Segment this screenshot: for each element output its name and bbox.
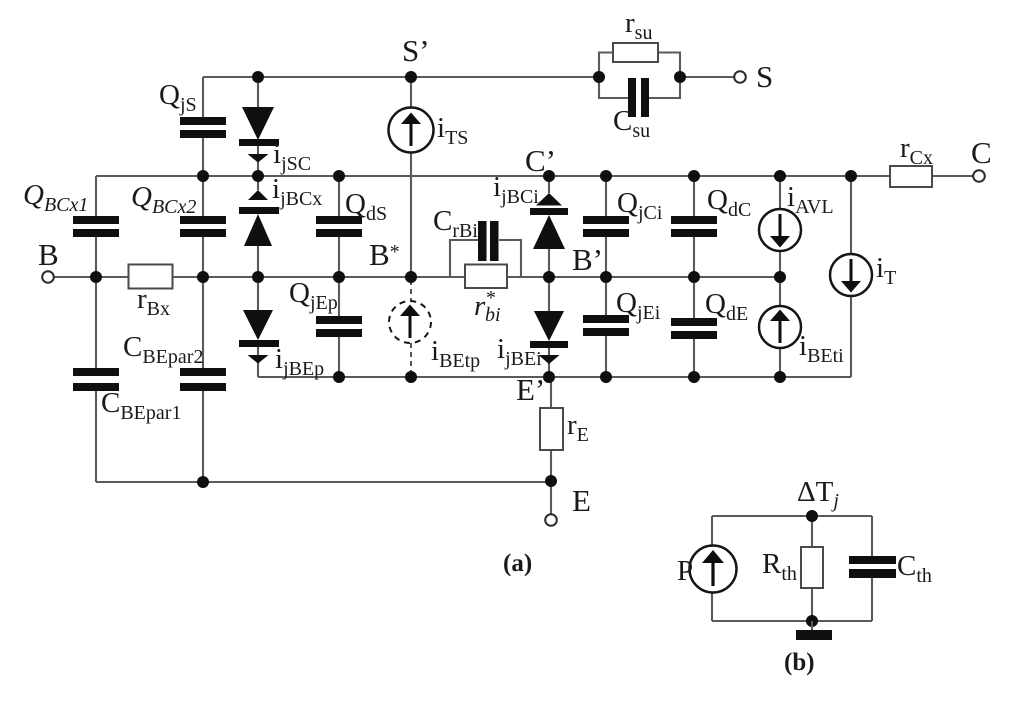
capacitor QdS [316,216,362,237]
current source i_BEtp (dashed) [389,301,431,343]
junction B'-row QjEi [600,271,612,283]
junction C'-row x203 [197,170,209,182]
wire i_TS column [410,77,412,277]
current arrow i_jBCx [248,190,268,200]
diode i_jBCi [530,208,568,249]
capacitor Cth [849,556,896,578]
junction C'-row QdS [333,170,345,182]
current source i_T [830,254,872,296]
svg-text:(a): (a) [503,550,532,577]
wire diode column x258 [257,77,259,377]
ground [796,621,832,640]
junction S-row iTS column [405,71,417,83]
wire r_bi to B' row end [507,276,780,278]
current source i_AVL [759,209,801,251]
wire thermal network loop [712,516,872,621]
wire C' row [96,175,890,177]
terminal C [973,170,985,182]
current source i_BEti [759,306,801,348]
resistor rBx [129,265,173,289]
current source i_TS [389,108,434,153]
wire S' top row [203,76,599,78]
diode i_jSC [239,107,279,146]
current arrow i_jSC [248,154,269,163]
current arrow i_jBCi [536,193,562,206]
wire dashed i_BEtp column [410,280,412,374]
terminal B [42,271,54,283]
capacitor CBEpar2 [180,368,226,391]
svg-text:S: S [756,59,773,94]
wire column x606 [605,176,607,377]
wire C_rBi bracket [450,240,521,277]
current source P [690,546,737,593]
svg-text:E’: E’ [516,372,545,407]
svg-text:E: E [572,483,591,518]
capacitor QjS [180,117,226,138]
resistor rCx [890,166,932,187]
svg-text:P: P [677,555,693,587]
capacitor QdC [671,216,717,237]
node thermal bottom [806,615,818,627]
wire r_su C_su bracket [599,53,735,99]
label rbi* [474,287,501,326]
wire r_E column [550,377,552,515]
wire column i_T x851 [850,176,852,377]
current arrow i_jBEi [539,355,560,364]
junction C'-row iAVL [774,170,786,182]
wire column x203 [202,77,204,482]
svg-text:(b): (b) [784,649,815,676]
junction C'-row iT [845,170,857,182]
capacitor QBCx1 [73,216,119,237]
junction C'-row QjCi [600,170,612,182]
svg-text:B: B [38,237,59,272]
capacitor Csu (vertical plates) [628,78,649,117]
junction E'-row QjEi [600,371,612,383]
wire r_Bx to r_bi [172,276,465,278]
junction B-row QjEp [333,271,345,283]
node dT_j top [806,510,818,522]
capacitor QjEi [583,315,629,336]
junction rsu right [674,71,686,83]
junction E'-row QdE [688,371,700,383]
svg-text:C’: C’ [525,143,556,178]
resistor rsu [613,43,658,62]
node E' [543,371,555,383]
diode i_jBEi [530,311,568,348]
junction C'-row diode column [252,170,264,182]
wire column x339 [338,176,340,377]
junction E'-row iBEti [774,371,786,383]
svg-text:ΔTj: ΔTj [797,476,839,512]
junction bottom wire x203 [197,476,209,488]
svg-text:C: C [971,135,992,170]
diode i_jBCx [239,207,279,246]
wire diode column x549 [548,176,550,377]
capacitor QjCi [583,216,629,237]
junction E'-row QjEp [333,371,345,383]
capacitor QBCx2 [180,216,226,237]
wire column x96 upper [95,176,97,482]
capacitor CBEpar1 [73,368,119,391]
wire column x780 [779,176,781,377]
junction E node [545,475,557,487]
wire bottom emitter [96,481,551,483]
wire r_Cx to C terminal [932,175,974,177]
junction rsu left [593,71,605,83]
node B' [543,271,555,283]
wire E' row [258,376,851,378]
terminal S [734,71,746,83]
junction B-row diode column [252,271,264,283]
resistor rbi* [465,265,507,289]
resistor rE [540,408,563,450]
diode i_jBEp [239,310,279,347]
svg-text:S’: S’ [402,33,430,68]
junction E'-row iBEtp [405,371,417,383]
current arrow i_jBEp [248,355,269,364]
svg-text:*: * [486,287,496,309]
node B* [405,271,417,283]
node B outer [90,271,102,283]
resistor Rth [801,547,823,588]
junction B-row x203 [197,271,209,283]
junction S-row diode column [252,71,264,83]
junction B'-row QdE [688,271,700,283]
svg-text:B’: B’ [572,242,603,277]
capacitor CrBi (vertical plates) [478,221,499,261]
capacitor QdE [671,318,717,339]
capacitor QjEp [316,316,362,337]
wire column x694 [693,176,695,377]
junction B'-row iBEti [774,271,786,283]
junction C'-row QdC [688,170,700,182]
node C' [543,170,555,182]
wire B terminal to r_Bx [52,276,129,278]
terminal E [545,514,557,526]
wire Rth column [811,516,813,621]
